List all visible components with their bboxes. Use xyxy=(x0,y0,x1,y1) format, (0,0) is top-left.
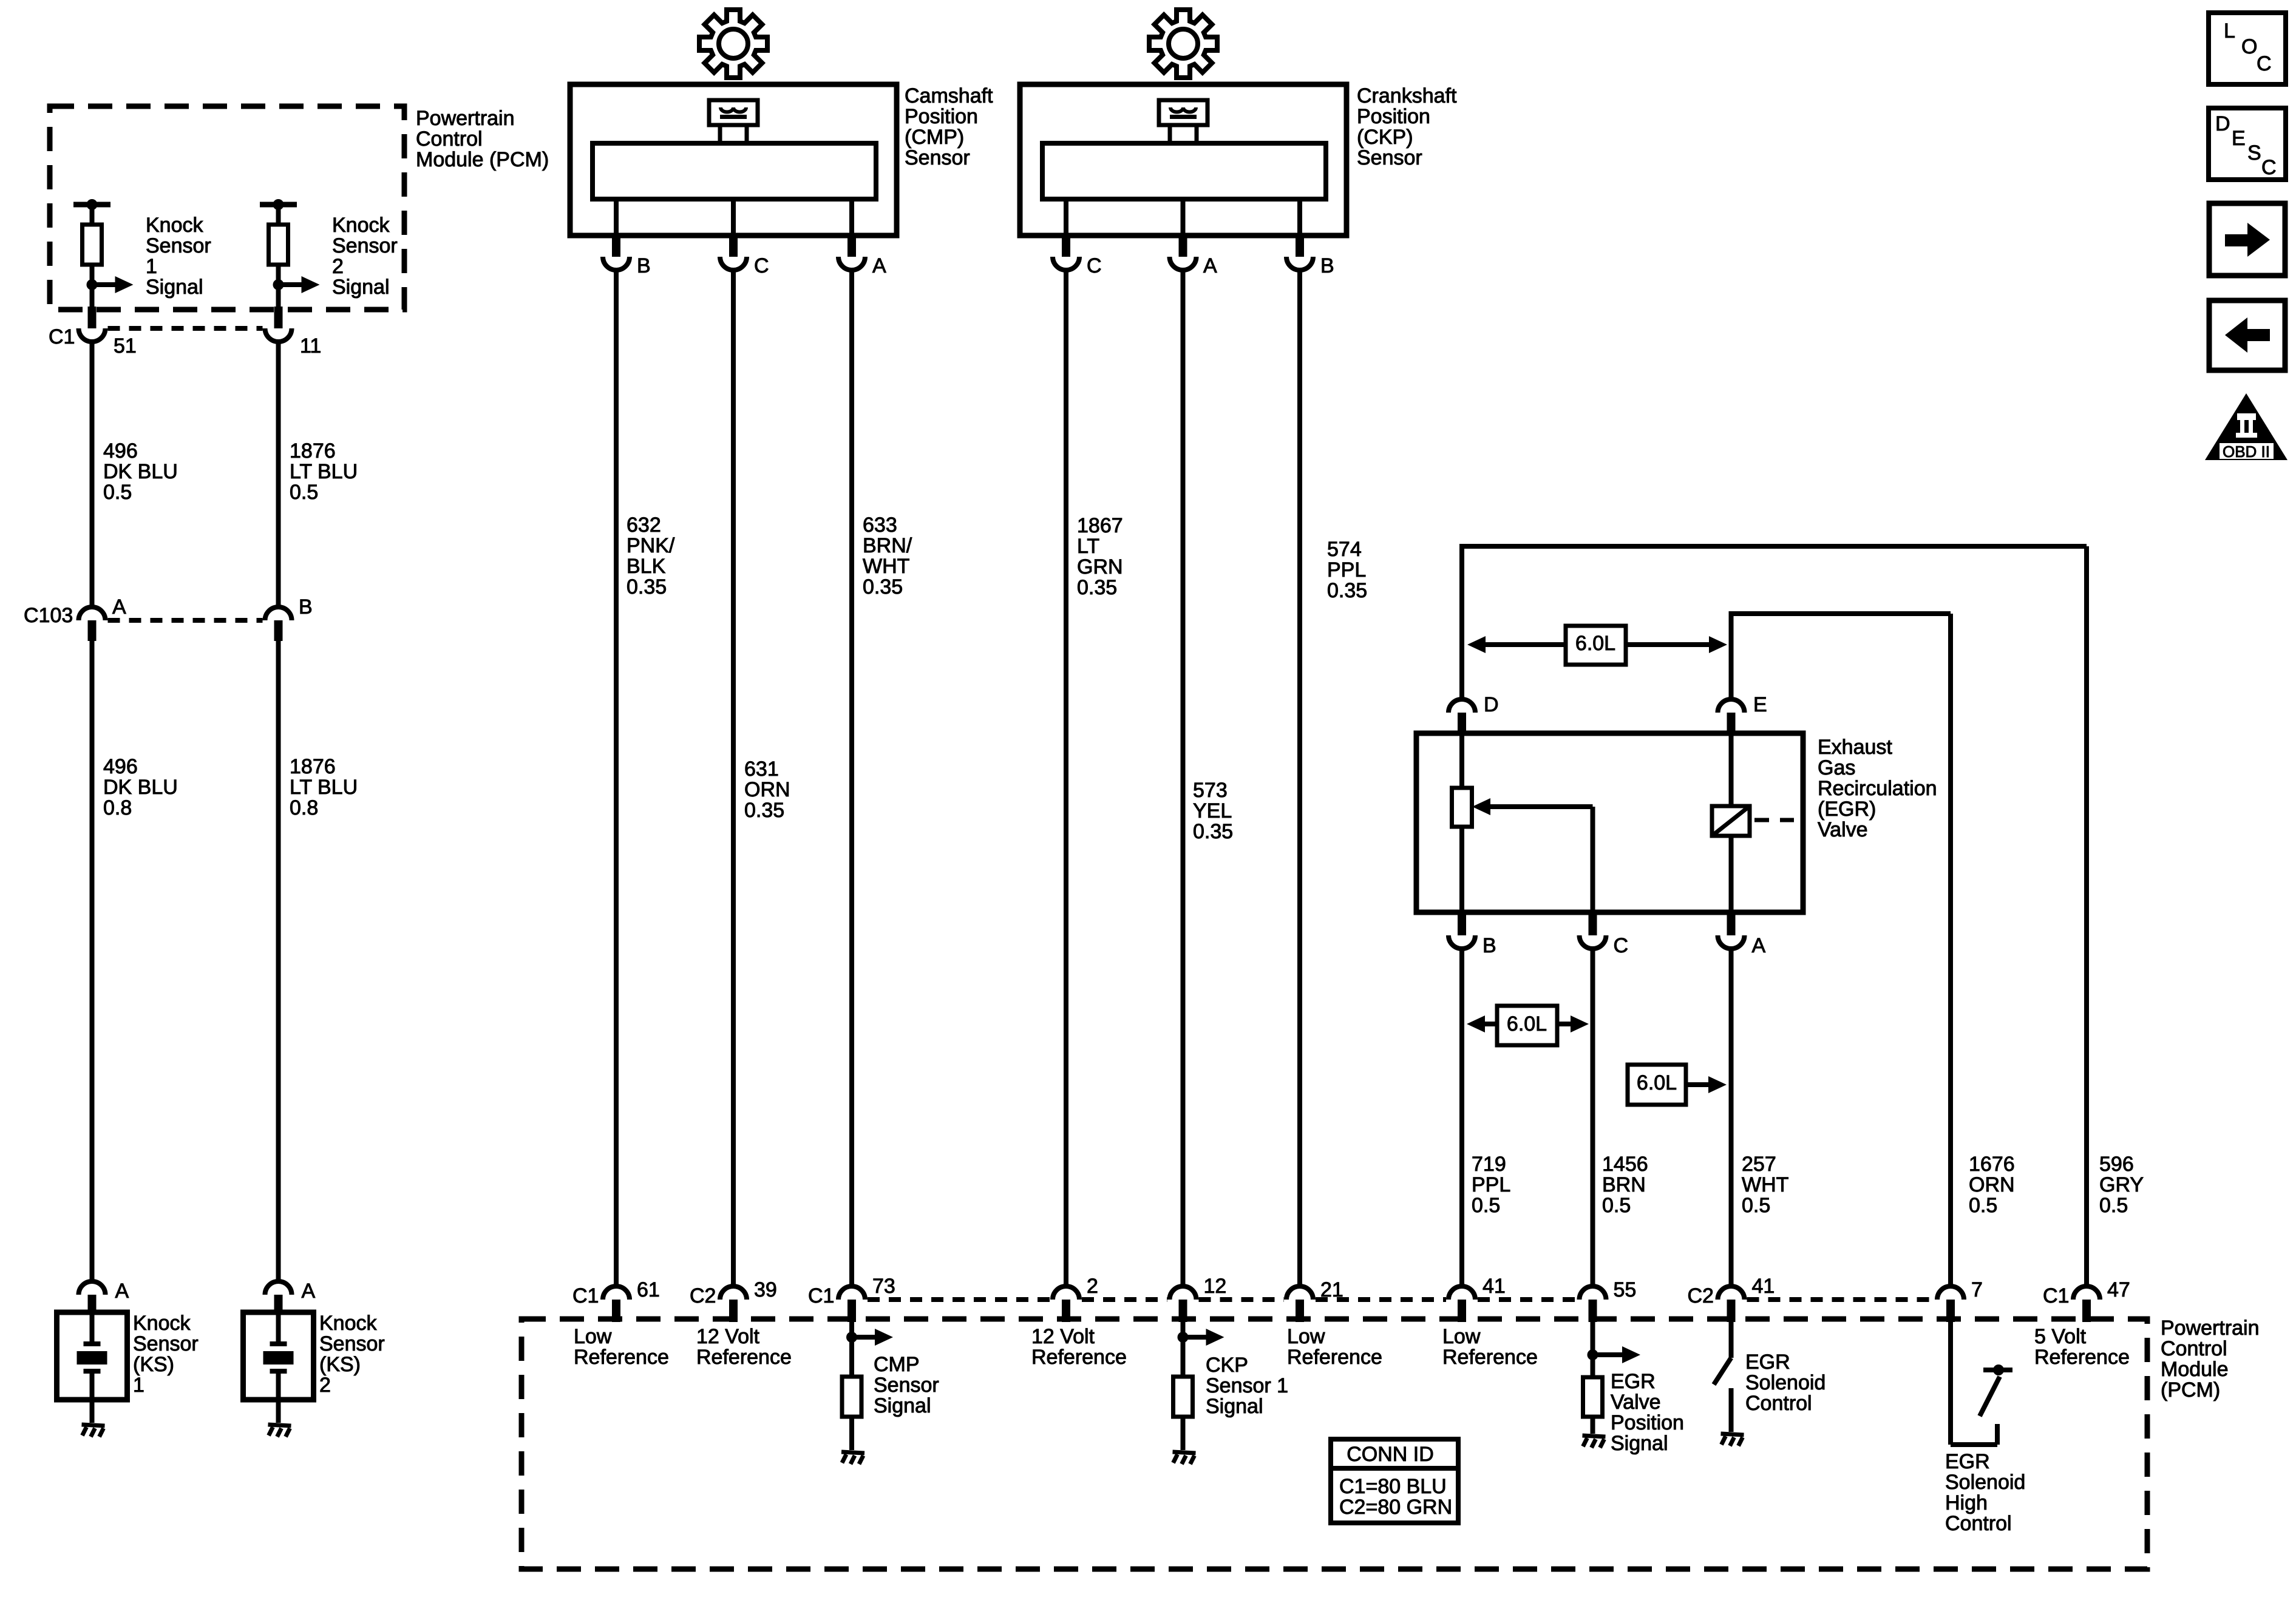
svg-text:Signal: Signal xyxy=(874,1394,931,1417)
svg-text:633: 633 xyxy=(863,514,897,537)
svg-text:A: A xyxy=(872,254,886,277)
svg-text:Signal: Signal xyxy=(1611,1432,1668,1455)
svg-text:41: 41 xyxy=(1752,1275,1775,1298)
svg-text:PPL: PPL xyxy=(1327,558,1366,581)
svg-text:5 Volt: 5 Volt xyxy=(2034,1325,2087,1348)
svg-text:1676: 1676 xyxy=(1969,1153,2015,1176)
svg-text:73: 73 xyxy=(872,1275,895,1298)
svg-text:0.35: 0.35 xyxy=(627,575,667,598)
svg-text:6.0L: 6.0L xyxy=(1575,632,1615,655)
svg-text:High: High xyxy=(1945,1491,1988,1514)
svg-text:(KS): (KS) xyxy=(133,1353,174,1376)
svg-text:573: 573 xyxy=(1193,779,1228,802)
svg-text:Sensor: Sensor xyxy=(146,234,211,257)
svg-text:Position: Position xyxy=(905,105,978,128)
svg-text:12 Volt: 12 Volt xyxy=(1031,1325,1095,1348)
svg-text:Sensor: Sensor xyxy=(332,234,398,257)
svg-text:B: B xyxy=(1483,934,1496,957)
svg-text:0.35: 0.35 xyxy=(1193,820,1233,843)
svg-text:1867: 1867 xyxy=(1077,514,1123,537)
svg-text:LT BLU: LT BLU xyxy=(290,776,358,799)
svg-text:E: E xyxy=(1753,693,1767,716)
svg-text:E: E xyxy=(2232,127,2246,150)
svg-text:11: 11 xyxy=(300,334,321,358)
svg-text:D: D xyxy=(2215,112,2230,135)
svg-text:0.5: 0.5 xyxy=(1742,1194,1770,1217)
svg-text:1: 1 xyxy=(133,1374,144,1397)
svg-text:Control: Control xyxy=(1945,1512,2012,1535)
svg-text:(CMP): (CMP) xyxy=(905,126,964,149)
svg-text:GRN: GRN xyxy=(1077,555,1123,578)
svg-text:Sensor: Sensor xyxy=(319,1332,385,1355)
svg-text:A: A xyxy=(1752,934,1766,957)
svg-text:Solenoid: Solenoid xyxy=(1945,1471,2025,1494)
svg-text:47: 47 xyxy=(2107,1278,2130,1301)
svg-text:0.5: 0.5 xyxy=(2099,1194,2128,1217)
svg-text:12 Volt: 12 Volt xyxy=(696,1325,760,1348)
svg-text:Gas: Gas xyxy=(1818,756,1855,779)
svg-text:OBD II: OBD II xyxy=(2223,442,2270,461)
svg-text:Sensor: Sensor xyxy=(133,1332,199,1355)
svg-text:Valve: Valve xyxy=(1818,818,1868,841)
svg-text:C2=80 GRN: C2=80 GRN xyxy=(1339,1496,1452,1519)
svg-text:C: C xyxy=(1087,254,1102,277)
svg-text:39: 39 xyxy=(754,1278,777,1301)
svg-text:WHT: WHT xyxy=(863,555,909,578)
svg-text:596: 596 xyxy=(2099,1153,2134,1176)
svg-text:Crankshaft: Crankshaft xyxy=(1357,84,1457,107)
svg-text:B: B xyxy=(299,595,313,619)
svg-text:55: 55 xyxy=(1614,1278,1637,1301)
svg-text:6.0L: 6.0L xyxy=(1637,1071,1677,1094)
svg-text:Position: Position xyxy=(1357,105,1430,128)
svg-text:C103: C103 xyxy=(24,604,73,627)
svg-text:1: 1 xyxy=(146,255,157,278)
svg-text:Low: Low xyxy=(1287,1325,1325,1348)
svg-text:Control: Control xyxy=(1745,1392,1812,1415)
svg-text:Reference: Reference xyxy=(1031,1346,1127,1369)
svg-text:ORN: ORN xyxy=(744,778,790,801)
svg-text:41: 41 xyxy=(1483,1275,1506,1298)
svg-text:0.5: 0.5 xyxy=(1969,1194,1997,1217)
svg-text:1876: 1876 xyxy=(290,439,336,463)
svg-text:A: A xyxy=(115,1280,129,1303)
svg-text:YEL: YEL xyxy=(1193,799,1232,822)
svg-text:632: 632 xyxy=(627,514,661,537)
svg-text:DK BLU: DK BLU xyxy=(103,460,178,483)
svg-text:C1=80 BLU: C1=80 BLU xyxy=(1339,1475,1447,1498)
svg-text:(CKP): (CKP) xyxy=(1357,126,1413,149)
svg-text:Position: Position xyxy=(1611,1411,1684,1434)
svg-text:257: 257 xyxy=(1742,1153,1776,1176)
svg-text:B: B xyxy=(1320,254,1334,277)
svg-text:D: D xyxy=(1484,693,1499,716)
svg-text:Signal: Signal xyxy=(146,276,203,299)
svg-text:C: C xyxy=(2261,156,2277,179)
svg-text:GRY: GRY xyxy=(2099,1173,2144,1196)
svg-text:Reference: Reference xyxy=(2034,1346,2130,1369)
svg-text:PPL: PPL xyxy=(1472,1173,1510,1196)
svg-text:0.8: 0.8 xyxy=(103,796,132,819)
svg-text:Sensor 1: Sensor 1 xyxy=(1206,1374,1288,1397)
svg-text:Knock: Knock xyxy=(332,214,390,237)
svg-text:(EGR): (EGR) xyxy=(1818,798,1876,821)
svg-text:B: B xyxy=(637,254,651,277)
svg-text:Sensor: Sensor xyxy=(1357,146,1422,169)
svg-text:Exhaust: Exhaust xyxy=(1818,736,1892,759)
svg-text:ORN: ORN xyxy=(1969,1173,2015,1196)
svg-text:LT BLU: LT BLU xyxy=(290,460,358,483)
svg-text:CKP: CKP xyxy=(1206,1354,1248,1377)
svg-text:CONN ID: CONN ID xyxy=(1347,1443,1434,1466)
svg-text:631: 631 xyxy=(744,758,779,781)
svg-text:Powertrain: Powertrain xyxy=(2161,1317,2260,1340)
svg-text:Valve: Valve xyxy=(1611,1391,1661,1414)
svg-text:C1: C1 xyxy=(2043,1284,2069,1307)
svg-text:Control: Control xyxy=(2161,1337,2227,1360)
svg-text:Recirculation: Recirculation xyxy=(1818,777,1937,800)
svg-text:C2: C2 xyxy=(1688,1284,1714,1307)
svg-text:Module: Module xyxy=(2161,1358,2229,1381)
svg-text:Powertrain: Powertrain xyxy=(416,107,515,130)
svg-text:LT: LT xyxy=(1077,535,1099,558)
svg-text:Solenoid: Solenoid xyxy=(1745,1371,1826,1394)
svg-text:A: A xyxy=(1203,254,1217,277)
svg-text:Sensor: Sensor xyxy=(905,146,970,169)
svg-text:Camshaft: Camshaft xyxy=(905,84,993,107)
svg-text:Knock: Knock xyxy=(319,1312,377,1335)
svg-text:S: S xyxy=(2247,141,2261,164)
svg-text:BRN: BRN xyxy=(1602,1173,1646,1196)
svg-text:EGR: EGR xyxy=(1945,1450,1990,1473)
svg-text:BRN/: BRN/ xyxy=(863,534,912,557)
svg-text:DK BLU: DK BLU xyxy=(103,776,178,799)
svg-text:Knock: Knock xyxy=(133,1312,191,1335)
svg-text:51: 51 xyxy=(114,334,137,358)
svg-text:61: 61 xyxy=(637,1278,660,1301)
svg-text:Reference: Reference xyxy=(696,1346,792,1369)
svg-text:Module (PCM): Module (PCM) xyxy=(416,148,549,171)
svg-text:2: 2 xyxy=(332,255,344,278)
svg-text:496: 496 xyxy=(103,755,138,778)
svg-text:0.35: 0.35 xyxy=(1077,576,1117,599)
svg-text:(KS): (KS) xyxy=(319,1353,361,1376)
svg-text:Reference: Reference xyxy=(1287,1346,1382,1369)
svg-text:0.35: 0.35 xyxy=(863,575,903,598)
svg-text:PNK/: PNK/ xyxy=(627,534,675,557)
svg-text:0.5: 0.5 xyxy=(1602,1194,1631,1217)
svg-text:Reference: Reference xyxy=(1442,1346,1538,1369)
svg-text:Low: Low xyxy=(1442,1325,1481,1348)
svg-text:EGR: EGR xyxy=(1611,1370,1656,1393)
svg-text:A: A xyxy=(302,1280,316,1303)
svg-text:Signal: Signal xyxy=(1206,1395,1263,1418)
svg-text:719: 719 xyxy=(1472,1153,1506,1176)
svg-text:0.35: 0.35 xyxy=(744,799,784,822)
svg-text:C: C xyxy=(754,254,769,277)
svg-text:496: 496 xyxy=(103,439,138,463)
svg-text:C1: C1 xyxy=(572,1284,599,1307)
svg-text:Knock: Knock xyxy=(146,214,203,237)
svg-text:C: C xyxy=(2257,52,2272,75)
svg-text:C: C xyxy=(1614,934,1629,957)
svg-text:0.5: 0.5 xyxy=(103,481,132,504)
svg-text:Sensor: Sensor xyxy=(874,1374,939,1397)
svg-text:0.5: 0.5 xyxy=(1472,1194,1500,1217)
svg-text:CMP: CMP xyxy=(874,1353,920,1376)
svg-text:2: 2 xyxy=(319,1374,331,1397)
svg-text:6.0L: 6.0L xyxy=(1507,1012,1547,1036)
svg-text:0.35: 0.35 xyxy=(1327,579,1367,602)
svg-text:WHT: WHT xyxy=(1742,1173,1788,1196)
svg-text:Control: Control xyxy=(416,127,483,151)
svg-text:C1: C1 xyxy=(49,325,75,348)
svg-text:C2: C2 xyxy=(690,1284,716,1307)
svg-text:EGR: EGR xyxy=(1745,1351,1790,1374)
svg-text:Reference: Reference xyxy=(574,1346,669,1369)
svg-text:O: O xyxy=(2241,35,2257,58)
svg-text:Low: Low xyxy=(574,1325,612,1348)
svg-text:1456: 1456 xyxy=(1602,1153,1648,1176)
svg-text:1876: 1876 xyxy=(290,755,336,778)
svg-text:L: L xyxy=(2224,19,2235,42)
svg-text:2: 2 xyxy=(1087,1275,1098,1298)
svg-text:A: A xyxy=(112,595,126,619)
svg-text:7: 7 xyxy=(1971,1278,1983,1301)
svg-text:574: 574 xyxy=(1327,538,1362,561)
svg-text:12: 12 xyxy=(1204,1275,1227,1298)
svg-text:C1: C1 xyxy=(808,1284,834,1307)
svg-text:0.5: 0.5 xyxy=(290,481,318,504)
svg-text:0.8: 0.8 xyxy=(290,796,318,819)
svg-text:BLK: BLK xyxy=(627,555,666,578)
svg-text:(PCM): (PCM) xyxy=(2161,1378,2220,1402)
svg-text:Signal: Signal xyxy=(332,276,390,299)
